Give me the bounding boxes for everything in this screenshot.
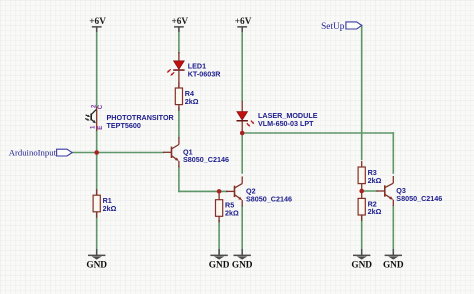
svg-text:2kΩ: 2kΩ — [368, 176, 382, 185]
LED D: LED1 KT-0603R — [178, 52, 180, 61]
svg-text:2kΩ: 2kΩ — [103, 204, 117, 213]
svg-text:KT-0603R: KT-0603R — [188, 70, 222, 79]
transistor Q2 S8050_C2146 — [226, 190, 235, 192]
wire Q1 emitter to Q2 base — [179, 190, 227, 192]
svg-text:2kΩ: 2kΩ — [225, 209, 239, 218]
svg-text:+6V: +6V — [171, 17, 188, 27]
junction node: laser cathode row — [240, 131, 245, 136]
transistor Q3 S8050_C2146 — [376, 190, 385, 192]
resistor R2 2k — [361, 192, 363, 198]
wire ArduinoInput to Q1 base — [72, 152, 163, 154]
resistor R4 2k — [178, 82, 180, 88]
wire Q2 emitter to GND — [241, 206, 243, 255]
svg-text:VLM-650-03 LPT: VLM-650-03 LPT — [258, 119, 314, 128]
svg-text:E: E — [98, 126, 104, 130]
svg-text:2kΩ: 2kΩ — [185, 97, 199, 106]
phototransistor PT: PHOTOTRANSITOR TEPT5600 — [96, 107, 98, 131]
ground under R5 — [218, 249, 220, 255]
ground under R2 — [361, 249, 363, 255]
wire Q3 emitter to GND — [392, 206, 394, 255]
resistor R5 2k — [218, 194, 220, 200]
svg-text:GND: GND — [86, 260, 107, 270]
junction node: Q1 emitter / R5 / Q2 base — [217, 189, 222, 194]
junction node: ArduinoInput / phototransistor / R1 — [94, 150, 99, 155]
svg-text:GND: GND — [383, 260, 404, 270]
wire +6V to laser anode — [241, 28, 243, 101]
wire R5 to GND — [218, 221, 220, 255]
laser diode: LASER_MODULE VLM-650-03 LPT — [241, 101, 243, 112]
ground under Q2 emitter — [241, 249, 243, 255]
wire down to Q3 collector — [392, 133, 394, 173]
svg-text:S8050_C2146: S8050_C2146 — [246, 194, 292, 203]
svg-text:C: C — [98, 104, 104, 109]
junction node: R3 / R2 / Q3 base — [359, 189, 364, 194]
resistor R3 2k — [361, 161, 363, 167]
wire R4 to Q1 collector — [178, 108, 180, 138]
wire laser cathode row — [242, 132, 393, 134]
wire node B to Q3 base — [362, 190, 377, 192]
wire +6V to phototransistor collector — [96, 28, 98, 107]
transistor Q1 S8050_C2146 — [163, 151, 172, 153]
svg-text:GND: GND — [351, 260, 372, 270]
wire Q1 emitter down — [178, 167, 180, 191]
svg-text:+6V: +6V — [235, 17, 252, 27]
svg-text:S8050_C2146: S8050_C2146 — [396, 194, 442, 203]
svg-text:2kΩ: 2kΩ — [368, 207, 382, 216]
svg-text:ArduinoInput: ArduinoInput — [9, 148, 57, 158]
ground under R1 — [96, 249, 98, 255]
wire laser node to Q2 collector — [241, 133, 243, 173]
resistor R1 2k — [96, 189, 98, 195]
svg-text:TEPT5600: TEPT5600 — [107, 121, 141, 130]
svg-text:SetUp: SetUp — [321, 22, 345, 32]
wire phototransistor emitter to node A — [96, 131, 98, 195]
svg-text:GND: GND — [232, 260, 253, 270]
svg-text:+6V: +6V — [89, 17, 106, 27]
wire +6V to LED1 anode — [178, 28, 180, 53]
ground under Q3 emitter — [392, 249, 394, 255]
wire R2 to GND — [361, 215, 363, 255]
svg-text:S8050_C2146: S8050_C2146 — [183, 155, 229, 164]
wire R1 to GND — [96, 213, 98, 256]
wire SetUp down to R3 — [361, 25, 363, 159]
svg-text:GND: GND — [209, 260, 230, 270]
